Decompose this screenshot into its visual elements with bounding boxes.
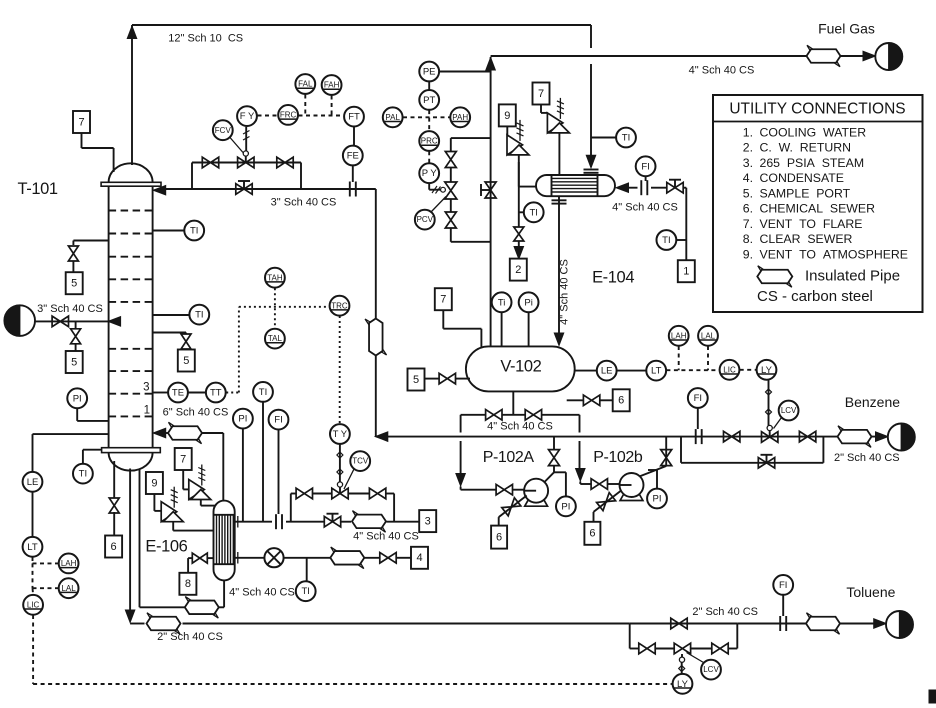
signal PAL-PAH [403,116,450,118]
utility box 7 (E-106 relief) [175,448,192,470]
svg-text:PRC: PRC [421,137,438,146]
wire TI E104 top [591,137,616,139]
utility box 9 (E-106 relief) [146,472,163,494]
signal LY-LCV [768,380,770,426]
instrument LE column [23,472,43,492]
valve column drain [109,498,119,513]
wire TI cw tap [677,239,687,241]
arrow feed into column [108,317,121,327]
orifice FE [349,182,351,197]
wire V102 chem sewer [567,399,584,401]
utility box 6 column [105,536,122,558]
svg-text:TI: TI [195,310,203,321]
signal TT-TRC [226,392,239,394]
instrument FE [343,146,363,166]
svg-text:3: 3 [143,382,149,394]
svg-text:TAL: TAL [268,334,283,343]
wire psv9 E104 outlet [518,155,520,187]
instrument PAH [450,107,470,127]
valve benzene 2 [799,431,815,442]
instrument TI column bottom [73,464,93,484]
wire vent to flare [81,132,83,148]
pump P-102A [524,479,548,503]
valve sample mid [71,329,81,344]
insulated pipe (fuel gas) [807,49,841,63]
wire condensate line [235,557,265,559]
valve pump A drain (angled) [502,498,521,516]
fuel gas offpage symbol [875,43,902,70]
svg-text:6: 6 [589,528,595,540]
instrument TRC [330,296,350,316]
svg-text:3.: 3. [743,156,753,170]
arrow pump B suction [576,469,586,482]
svg-text:P-102A: P-102A [483,449,535,466]
instrument TAH [265,268,285,288]
wire PI steam [242,429,244,522]
svg-text:P Y: P Y [422,168,438,179]
wire valve-box5b [75,344,77,352]
insulated pipe (benzene) [838,430,872,444]
svg-text:Benzene: Benzene [845,394,900,410]
instrument LE V102 [597,361,617,381]
svg-text:2" Sch 40 CS: 2" Sch 40 CS [692,606,758,618]
svg-text:4" Sch 40 CS: 4" Sch 40 CS [559,259,571,325]
wire feed sample tee [75,321,77,328]
svg-text:TI: TI [79,469,87,480]
condenser E-104 shell [536,175,615,196]
wire sample right tap [153,332,186,334]
instrument PAL [383,107,403,127]
svg-text:VENT TO ATMOSPHERE: VENT TO ATMOSPHERE [760,247,909,261]
svg-text:2: 2 [515,264,521,276]
wire E104 to V102 [558,196,560,334]
wire reflux riser [375,189,377,318]
svg-text:3" Sch 40 CS: 3" Sch 40 CS [37,303,103,315]
svg-text:4" Sch 40 CS: 4" Sch 40 CS [612,201,678,213]
svg-text:5: 5 [71,356,77,368]
svg-text:6" Sch 40 CS: 6" Sch 40 CS [163,407,229,419]
svg-text:Toluene: Toluene [846,584,895,600]
svg-text:5: 5 [413,374,419,386]
arrow header to riser [375,432,388,442]
instrument LAH V102 [669,326,689,346]
svg-text:4.: 4. [743,171,753,185]
instrument LCV benzene [779,401,799,421]
feed line 3in [35,320,109,322]
signal TY-TCV stem [339,444,341,481]
svg-text:COOLING WATER: COOLING WATER [760,125,867,139]
signal LT-LAH [32,557,34,563]
nozzle tick condensate [237,552,239,564]
svg-text:PE: PE [423,67,436,78]
wire pump B suction [579,415,581,433]
wire box7-psv E104 [540,105,542,113]
utility box 7 (column top) [73,111,90,133]
instrument FI cw [636,156,656,176]
instrument LAL V102 [698,326,718,346]
wire psv9 outlet [172,522,174,531]
svg-text:6: 6 [496,532,502,544]
utility box 6 (pump A) [491,526,507,549]
valve pump B drain (angled) [597,493,616,511]
signal LT-LAL [32,563,34,588]
wire tap sample upper [73,240,108,242]
svg-text:FAL: FAL [298,80,313,89]
utility box 5 (V-102) [408,369,425,391]
wire TE-TT [189,392,206,394]
wire FY to FCV stem [245,127,247,151]
svg-text:7: 7 [538,88,544,100]
control valve FCV [238,157,254,168]
insulated pipe (toluene) [806,617,840,631]
svg-text:3" Sch 40 CS: 3" Sch 40 CS [271,196,337,208]
svg-text:PI: PI [238,414,247,425]
svg-text:LAH: LAH [61,559,77,568]
valve E-106 blowdown [192,553,207,563]
instrument LCV toluene [701,660,721,680]
valve pump B suction header [525,410,541,421]
svg-text:6: 6 [618,395,624,407]
wire PI tap [76,409,78,421]
instrument PE [419,62,439,82]
instrument TY [330,424,350,444]
utility box 9 (E-104) [499,104,516,126]
wire cw return [519,186,536,188]
feed valve [52,316,68,327]
svg-text:LAH: LAH [671,331,687,340]
svg-text:2" Sch 40 CS: 2" Sch 40 CS [157,631,223,643]
signal FAL down [304,95,306,116]
wire bottoms product [129,469,131,612]
svg-text:CHEMICAL SEWER: CHEMICAL SEWER [760,202,876,216]
instrument FCV bubble [213,120,233,140]
wire fuel gas riser [490,57,492,346]
wire psv7 outlet [200,500,202,506]
svg-text:TI: TI [301,586,309,597]
svg-text:PI: PI [653,494,662,505]
wire FI cw [645,177,647,182]
valve pump A suction [496,484,512,495]
arrow pump A suction [456,474,466,487]
signal PRC-PY [428,151,430,163]
instrument FI toluene [773,575,793,595]
instrument LY V102 [757,360,777,380]
utility box 3 [419,510,436,532]
svg-text:PAL: PAL [385,113,400,122]
wire FE to orifice [352,166,354,182]
signal FY-FRC [258,115,278,117]
svg-text:T-101: T-101 [17,180,57,198]
globe valve benzene bypass [758,458,774,469]
instrument PI pump B [647,489,667,509]
svg-text:Insulated Pipe: Insulated Pipe [805,267,900,284]
svg-text:9: 9 [504,110,510,122]
wire PE-PT [428,82,430,90]
control valve TCV [332,488,348,499]
valve pump A discharge [549,450,560,466]
utility box 2 [510,259,527,281]
legend insulated pipe symbol [757,270,792,284]
condensate flange ticks [552,199,567,201]
svg-text:LE: LE [27,477,39,488]
utility box 4 [411,547,428,569]
wire 3in reflux main [164,188,376,190]
nozzle tick steam [237,516,239,528]
feed source symbol [4,305,35,336]
wire TI E104 tap [519,211,524,213]
svg-text:8.: 8. [743,232,753,246]
instrument LT column [23,537,43,557]
svg-text:LIC: LIC [723,365,736,374]
wire TI steam [262,402,264,522]
svg-text:9.: 9. [743,247,753,261]
instrument Ti [492,292,512,312]
globe valve cw [667,182,683,193]
signal PT-PRC [428,110,430,131]
wire cw supply [623,187,637,189]
svg-text:7: 7 [78,116,84,128]
instrument TI cw [657,230,677,250]
valve condensate [380,553,396,564]
svg-text:6: 6 [111,541,117,553]
column T-101 shell [108,186,110,448]
arrow cw into E-104 [616,183,629,193]
pump P-102b [620,473,644,497]
svg-text:CS - carbon steel: CS - carbon steel [757,288,873,305]
svg-text:TE: TE [172,388,184,399]
arrow reflux into column [153,185,166,195]
svg-text:FRC: FRC [280,111,297,120]
svg-text:E-106: E-106 [145,537,187,555]
svg-text:2" Sch 40 CS: 2" Sch 40 CS [834,452,900,464]
svg-text:1: 1 [144,404,150,416]
wire 12in overhead [131,25,133,165]
arrow into E-104 [586,155,596,168]
instrument TE [168,383,188,403]
arrow bottoms down [125,610,135,623]
valve toluene main [671,618,687,629]
signal FAH down [331,96,333,116]
wire PY-PCV [428,183,430,189]
arrow benzene [876,432,889,442]
svg-text:5.: 5. [743,186,753,200]
wire steam line [235,521,272,523]
instrument FI benzene [688,388,708,408]
instrument Pi [519,292,539,312]
svg-text:PI: PI [73,393,82,404]
wire LE tap [33,433,109,435]
svg-text:7.: 7. [743,217,753,231]
wire valve-box5c [185,349,187,350]
relief valve PSV-7 E-106 [189,480,205,500]
orifice steam [275,514,277,529]
utility box 5 mid left [66,351,83,373]
svg-text:8: 8 [185,578,191,590]
wire box9-psv [153,494,155,511]
wire Ti tap [501,313,503,347]
wire pump A discharge [545,472,555,482]
wire psv7 E104 outlet [558,133,560,175]
wire TI1 tap [153,230,184,232]
valve toluene bypass R [712,643,728,654]
svg-text:2.: 2. [743,141,753,155]
valve bypass right [277,157,293,168]
insulated pipe (condensate) [330,551,364,565]
arrow into V-102 [554,333,564,346]
svg-text:TRC: TRC [331,301,348,310]
arrow vapor into column [153,428,166,438]
PCV control valve [445,182,457,199]
svg-text:4: 4 [416,552,422,564]
insulated pipe (6in) [168,426,202,440]
relief valve PSV-7 E-104 [547,113,563,133]
instrument TI E-104 top [616,128,636,148]
svg-text:PI: PI [561,501,570,512]
svg-text:FCV: FCV [215,126,232,135]
valve TCV-block left [296,488,312,499]
utility box 7 (E-104) [533,83,550,105]
utility box 1 [678,260,695,282]
wire valve-box5a [72,261,74,272]
svg-text:TI: TI [190,226,198,237]
utility box 5 right [178,350,195,372]
instrument FAH [322,75,342,95]
instrument LIC V102 [720,360,740,380]
signal LAL down [707,346,709,370]
wire FI toluene [782,595,784,616]
wire toluene to offpage [737,623,806,625]
wire benzene bypass [680,437,682,463]
wire drain to box6 [113,461,115,498]
steam trap symbol [264,548,283,567]
legend box [713,95,923,312]
instrument PCV bubble [415,210,435,230]
instrument PT [419,90,439,110]
svg-text:FI: FI [274,415,282,426]
svg-text:UTILITY CONNECTIONS: UTILITY CONNECTIONS [729,101,905,118]
wire TI condensate [306,558,308,581]
svg-text:PT: PT [423,95,435,106]
svg-text:Pi: Pi [524,297,532,308]
instrument PY [419,163,439,183]
instrument TI mid [189,305,209,325]
arrow toluene [874,619,887,629]
valve V102 sample [439,373,455,384]
drum V-102 [466,346,575,391]
svg-text:T Y: T Y [333,429,348,440]
wire box7-V102 [442,310,444,328]
relief valve PSV-9 E-104 [507,135,523,155]
signal LIC-LY [740,369,757,371]
instrument LT V102 [646,361,666,381]
arrow up overhead [127,26,137,39]
signal LIC to LY (bottom) [32,615,34,684]
valve pump A suction header [486,410,502,421]
globe valve reflux [236,184,252,195]
wire FT-FE [353,127,355,145]
wire FI benzene [697,408,699,429]
svg-text:FT: FT [348,112,360,123]
wire LE-LT V102 [617,370,646,372]
wire reboiler feed [139,470,141,608]
instrument PI column [67,388,87,408]
wire TI2 tap [153,314,189,316]
arrow cw return down [514,247,524,260]
svg-text:TI: TI [529,207,537,218]
svg-text:7: 7 [440,294,446,306]
insulated pipe (2in bottoms) [147,617,181,631]
signal LT-LIC [666,369,719,371]
instrument FAL [295,74,315,94]
orifice benzene [695,429,697,444]
svg-text:FI: FI [779,580,787,591]
wire LE-LT [32,492,34,537]
arrow fuel gas up [486,58,496,71]
wire pump A suction [460,415,462,433]
signal LCV-LY stem [681,662,683,673]
instrument LY toluene [673,674,693,694]
wire toluene bypass [629,624,631,649]
orifice toluene [779,616,781,631]
svg-text:LT: LT [27,542,38,553]
svg-text:7: 7 [180,453,186,465]
utility box 5 upper left [66,272,83,294]
instrument PI steam [233,409,253,429]
insulated pipe (steam) [352,515,386,529]
svg-text:6.: 6. [743,202,753,216]
valve pump B discharge [661,450,672,466]
valve PCV-block upper [445,152,456,168]
E-104 inlet flange ticks [584,169,599,171]
svg-text:V-102: V-102 [500,357,541,375]
svg-text:4" Sch 40 CS: 4" Sch 40 CS [229,586,295,598]
column trays (dashed) [109,210,153,212]
wire pump A drain [499,496,527,518]
svg-text:E-104: E-104 [592,268,634,286]
instrument LAH column [59,554,79,574]
svg-text:1: 1 [683,266,689,278]
utility box 7 (V-102) [435,288,452,310]
valve cw return [514,227,524,241]
wire LE tap V102 [575,370,597,372]
svg-text:LCV: LCV [781,406,797,415]
svg-text:TI: TI [662,235,670,246]
svg-text:P-102b: P-102b [593,449,643,466]
wire E-106 blowdown [207,557,214,559]
wire discharge header [376,436,878,438]
svg-text:LIC: LIC [27,600,40,609]
utility box 6 (V-102) [613,389,630,411]
svg-text:PAH: PAH [452,113,468,122]
svg-text:4" Sch 40 CS: 4" Sch 40 CS [353,530,419,542]
svg-text:5: 5 [71,278,77,290]
instrument TT [206,383,226,403]
reboiler E-106 shell [214,501,235,581]
wire 2in bottoms [130,623,144,625]
wire Pi tap [528,313,530,347]
valve sample right [181,334,191,349]
instrument FI steam [269,410,289,430]
valve sample upper [68,246,78,261]
valve toluene bypass L [639,643,655,654]
wire pump B drain [594,490,622,512]
relief valve PSV-9 E-106 [161,502,177,522]
wire PCV bypass [451,137,491,139]
globe valve steam [324,516,340,527]
wire TI bottom tap [82,450,84,464]
svg-text:FE: FE [347,151,359,162]
svg-text:265 PSIA STEAM: 265 PSIA STEAM [760,156,865,170]
